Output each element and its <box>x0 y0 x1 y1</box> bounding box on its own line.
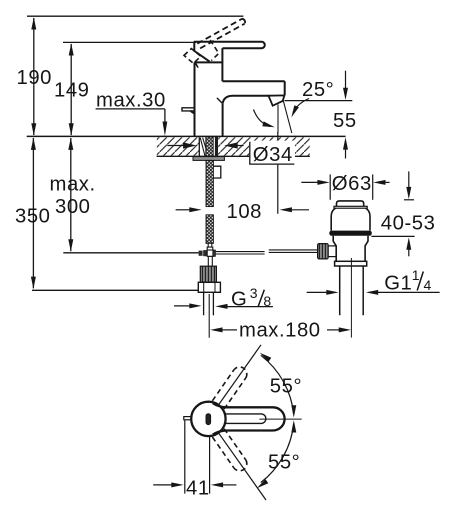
drain lip ring <box>335 261 367 266</box>
countertop hatched section <box>157 137 310 155</box>
G3/8 underline leader <box>227 306 273 308</box>
water stream angled line <box>283 100 292 133</box>
svg-text:108: 108 <box>227 201 263 223</box>
knob connector <box>328 246 336 257</box>
mounting wedge lines <box>200 138 206 157</box>
dim 350 line+arrows <box>31 138 36 289</box>
25deg arc arrow left <box>254 110 276 130</box>
hose connection nipple <box>213 166 220 178</box>
G3/8 slash <box>258 290 264 307</box>
top view handle pivot circle <box>191 402 225 436</box>
svg-text:25°: 25° <box>302 79 334 101</box>
svg-text:Ø34: Ø34 <box>253 144 293 166</box>
dim max.300 line+arrows <box>68 138 73 252</box>
108 extension line <box>277 132 279 214</box>
top view left tick <box>184 417 191 420</box>
dashed lever position upper <box>212 367 246 409</box>
mounting washer <box>193 157 224 161</box>
spout top edge <box>222 80 284 82</box>
drain centerline <box>350 258 352 338</box>
lever handle raised (dashed) <box>197 19 245 49</box>
svg-text:350: 350 <box>15 206 51 228</box>
top view arm inner slot <box>225 414 266 424</box>
svg-text:190: 190 <box>17 67 53 89</box>
faucet body right edge <box>222 104 224 137</box>
dim 149 extension+arrows <box>69 43 74 135</box>
dim 108 right arrow <box>280 207 309 212</box>
drain plug base plate <box>334 206 367 208</box>
faucet joint block <box>194 42 222 63</box>
water stream vertical reference <box>277 105 279 134</box>
dim 190 reference top line <box>27 15 243 17</box>
svg-text:41: 41 <box>186 478 210 500</box>
dim max.30 leader arrow <box>163 109 168 136</box>
upper 55 leader line <box>218 345 261 406</box>
dim max.300 text <box>50 173 96 218</box>
spout right edge <box>284 81 286 95</box>
faucet centerline <box>208 294 210 338</box>
dim 149 reference line <box>63 41 196 43</box>
top view lever arm <box>213 403 285 434</box>
countertop top line <box>27 135 346 137</box>
threaded shank lower <box>206 215 213 244</box>
dim G1 1/4 arrows <box>307 290 440 295</box>
dim 55 top reference line <box>285 100 353 102</box>
dim Ø63 arrows <box>301 180 389 185</box>
dim 108 left arrow <box>176 207 202 212</box>
spout aerator tip <box>269 95 285 105</box>
svg-text:max.: max. <box>50 173 96 195</box>
upper 55 arc <box>258 351 296 418</box>
svg-text:max.180: max.180 <box>239 320 321 342</box>
Ø34 label box <box>249 141 295 166</box>
svg-text:149: 149 <box>54 80 90 102</box>
svg-text:40-53: 40-53 <box>381 212 436 234</box>
dim max.30 text underlined <box>96 89 166 111</box>
svg-text:3: 3 <box>250 285 258 301</box>
faucet body left edge <box>194 62 196 136</box>
mounting hole left edge <box>198 137 200 156</box>
svg-text:max.30: max.30 <box>96 89 166 111</box>
Ø34 arrows <box>167 142 243 148</box>
dashed lever position lower <box>212 429 246 471</box>
dim Ø63 extension lines <box>330 174 373 199</box>
dim 40-53 lower arrow <box>371 236 414 256</box>
svg-text:300: 300 <box>55 196 91 218</box>
drain tailpipe <box>340 266 364 315</box>
svg-text:G: G <box>231 289 247 311</box>
dim 55 upper arrow <box>343 71 348 100</box>
rod T-connector <box>199 243 216 266</box>
dim G3/8 arrows <box>174 303 228 309</box>
pop-up rod left <box>63 252 198 254</box>
svg-text:55°: 55° <box>268 452 300 474</box>
clamp bar (dark) <box>215 137 218 157</box>
dim 41 arrows <box>153 482 236 487</box>
joint raised outline (dashed) <box>184 40 219 70</box>
dim 190 extension+arrows <box>31 17 36 135</box>
pop-up knob (knurled) <box>318 244 329 259</box>
lower 55 leader line <box>218 432 266 500</box>
dim max.180 left arrow <box>210 327 237 332</box>
check valve knurled body <box>200 266 216 282</box>
connection nut <box>198 282 220 292</box>
threaded stud in counter <box>206 137 213 156</box>
svg-text:1: 1 <box>412 267 420 283</box>
dim 40-53 upper arrow <box>404 171 414 199</box>
dim 350 reference line <box>32 289 198 291</box>
dim 41 extension lines <box>185 421 210 494</box>
dim 55 lower arrow <box>343 137 348 158</box>
hose hook tab <box>182 108 195 114</box>
G1 1/4 label <box>384 267 431 294</box>
svg-text:Ø63: Ø63 <box>332 173 372 195</box>
countertop bottom line <box>157 155 310 157</box>
top view screw slot <box>206 414 211 425</box>
spout chamfer line <box>217 98 223 104</box>
lower 55 arc <box>255 420 296 490</box>
pop-up rod right (to drain) <box>269 250 318 253</box>
25deg leader arrow from label <box>289 99 309 119</box>
faucet neck right edge <box>221 48 223 81</box>
drain body below gasket <box>333 236 368 261</box>
dim max.180 right arrow <box>327 327 351 332</box>
svg-text:G1: G1 <box>384 273 412 295</box>
lever handle (horizontal) <box>194 42 265 48</box>
G3/8 tail pipe <box>204 292 214 315</box>
drain gasket (black) <box>329 231 372 236</box>
drain flange body <box>331 208 370 230</box>
svg-text:55: 55 <box>333 110 357 132</box>
top view horizontal centerline <box>259 418 301 420</box>
G1 1/4 slash <box>417 272 423 291</box>
svg-text:4: 4 <box>424 277 432 293</box>
threaded shank upper <box>206 160 213 206</box>
drain plug dome <box>337 201 364 206</box>
G3/8 label underlined <box>231 285 271 311</box>
spout underside <box>223 96 269 104</box>
pop-up rod middle (double line) <box>215 252 264 254</box>
svg-text:55°: 55° <box>270 375 302 397</box>
